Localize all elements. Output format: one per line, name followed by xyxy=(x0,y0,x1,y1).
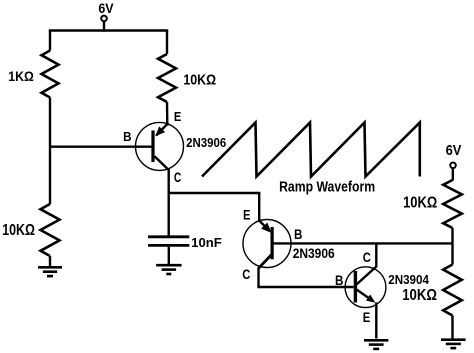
svg-text:E: E xyxy=(363,310,371,325)
svg-text:B: B xyxy=(335,273,344,288)
svg-text:E: E xyxy=(243,207,251,222)
svg-text:10KΩ: 10KΩ xyxy=(403,195,437,212)
svg-text:6V: 6V xyxy=(98,0,114,16)
svg-text:2N3904: 2N3904 xyxy=(388,272,429,287)
svg-text:C: C xyxy=(242,267,250,282)
svg-text:B: B xyxy=(294,227,303,242)
svg-text:C: C xyxy=(363,250,371,265)
svg-text:6V: 6V xyxy=(446,143,462,159)
svg-text:10KΩ: 10KΩ xyxy=(2,222,35,239)
svg-text:1KΩ: 1KΩ xyxy=(8,69,34,84)
svg-text:10KΩ: 10KΩ xyxy=(183,72,216,88)
svg-text:C: C xyxy=(174,170,182,185)
svg-text:Ramp Waveform: Ramp Waveform xyxy=(279,179,375,195)
svg-text:10nF: 10nF xyxy=(191,235,222,250)
svg-text:E: E xyxy=(174,109,182,124)
svg-text:B: B xyxy=(123,129,131,144)
svg-text:2N3906: 2N3906 xyxy=(186,135,226,150)
svg-text:2N3906: 2N3906 xyxy=(293,245,335,261)
svg-text:10KΩ: 10KΩ xyxy=(402,287,437,304)
